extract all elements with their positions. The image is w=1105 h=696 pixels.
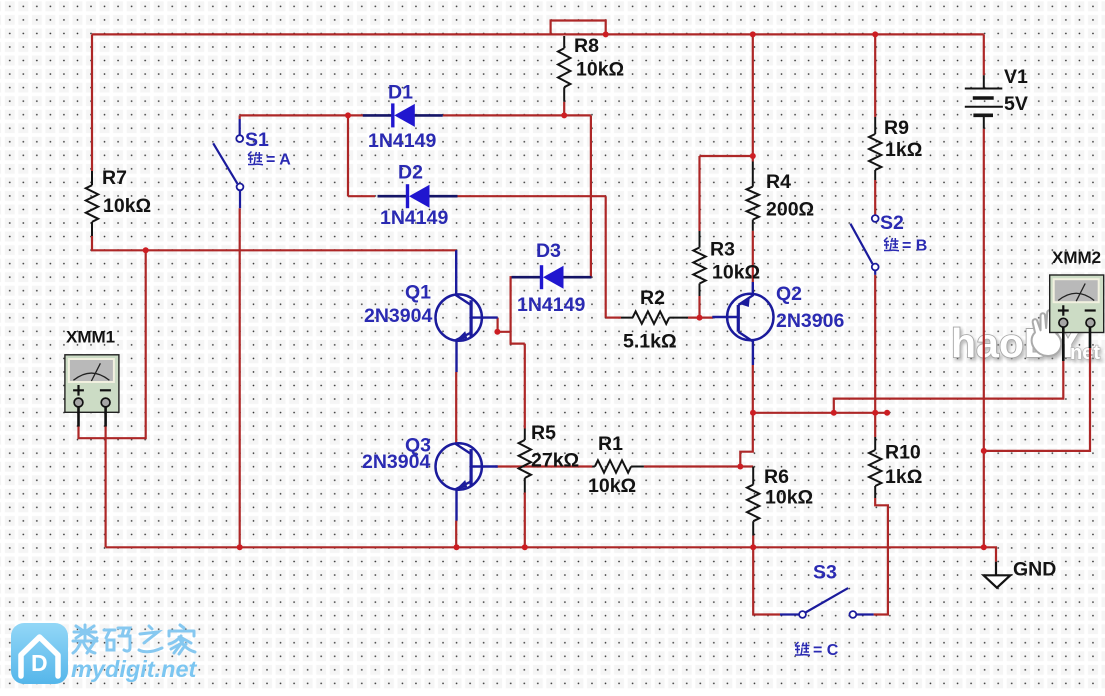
wire XMM2 plus lead xyxy=(834,360,1064,413)
resistor R7 xyxy=(86,171,98,236)
wire R5 bottom to ground bus xyxy=(524,493,526,548)
junction base row / Q2 collector xyxy=(737,464,743,470)
svg-text:27kΩ: 27kΩ xyxy=(531,450,579,472)
transistor Q3 2N3904 xyxy=(436,443,498,521)
svg-text:D1: D1 xyxy=(388,82,413,104)
wire D2 row drop to R2 xyxy=(605,196,607,317)
wire Q1 base net down to R5 xyxy=(524,344,526,429)
switch S3 xyxy=(780,588,874,618)
wire R2 right lead to Q2 base xyxy=(688,317,713,319)
wire R3 vertical feed xyxy=(698,156,700,231)
junction ground bus / V1 / GND xyxy=(981,544,987,550)
junction D1 row / D2 branch xyxy=(345,112,351,118)
wire D2 cathode to right corner xyxy=(455,195,606,197)
svg-text:XMM2: XMM2 xyxy=(1052,248,1101,267)
svg-text:10kΩ: 10kΩ xyxy=(576,59,624,81)
svg-text:R2: R2 xyxy=(640,287,665,309)
junction ground bus / R5 xyxy=(522,544,528,550)
wire R3 bottom to base node xyxy=(698,296,700,318)
wire D3 cathode corner to Q1 base junction xyxy=(511,277,525,343)
wire Q1 emitter to Q3 collector xyxy=(455,372,457,444)
wire ground bus stub to GND symbol xyxy=(984,547,996,561)
value S2 key B xyxy=(884,238,899,252)
transistor Q2 2N3906 xyxy=(712,282,773,365)
wire R4 bottom to Q2 emitter xyxy=(752,231,754,282)
junction collector net / S2-R10 xyxy=(872,410,878,416)
wire S3 right up to R10 xyxy=(874,498,888,615)
svg-text:D: D xyxy=(31,650,48,676)
svg-text:Q2: Q2 xyxy=(776,283,802,305)
resistor R5 xyxy=(519,429,531,493)
svg-text:10kΩ: 10kΩ xyxy=(765,487,813,509)
svg-text:D2: D2 xyxy=(398,162,423,184)
ground GND xyxy=(995,562,997,576)
svg-text:10kΩ: 10kΩ xyxy=(588,475,636,497)
svg-text:S2: S2 xyxy=(880,212,904,234)
diode D1 1N4149 xyxy=(363,103,443,127)
multimeter XMM1 xyxy=(65,355,119,413)
wire Q1 base drop xyxy=(498,318,511,332)
resistor R10 xyxy=(869,437,881,498)
junction top bus / jog xyxy=(603,31,609,37)
junction V1 line / XMM2 minus xyxy=(981,448,987,454)
junction collector net end xyxy=(884,410,890,416)
wire R2 left lead feed xyxy=(606,317,621,319)
wire V+ rail left drop to R7 xyxy=(91,34,93,171)
resistor R6 xyxy=(747,467,759,536)
wire V+ rail drop to R9 xyxy=(874,34,876,117)
resistor R2 xyxy=(621,311,688,323)
svg-text:1N4149: 1N4149 xyxy=(368,130,436,152)
multimeter XMM2 xyxy=(1050,275,1104,333)
junction ground bus / S1 xyxy=(237,544,243,550)
svg-text:R4: R4 xyxy=(766,171,791,193)
svg-text:R7: R7 xyxy=(102,167,127,189)
wire XMM2 minus lead xyxy=(984,348,1090,451)
wire bottom ground bus xyxy=(106,546,984,548)
wire R6 bottom to ground bus xyxy=(752,536,754,548)
wire V+ rail corner to V1 xyxy=(983,34,985,75)
wire top power bus xyxy=(92,33,984,35)
wire D1 cathode to R8 node xyxy=(443,114,591,116)
svg-text:net: net xyxy=(1070,342,1100,364)
svg-text:200Ω: 200Ω xyxy=(766,199,814,221)
mydigit.net logo icon xyxy=(11,623,68,684)
switch S2 xyxy=(850,215,878,275)
svg-text:= B: = B xyxy=(902,238,927,255)
resistor R9 xyxy=(869,117,881,180)
junction Q1 base / D3 xyxy=(494,329,500,335)
resistor R4 xyxy=(747,162,759,231)
wire Q3 emitter to ground bus xyxy=(455,521,457,548)
svg-text:2N3904: 2N3904 xyxy=(364,305,432,327)
junction top bus / R9 branch xyxy=(872,31,878,37)
junction collector net / Q2 xyxy=(750,410,756,416)
svg-text:S3: S3 xyxy=(813,562,837,584)
svg-text:10kΩ: 10kΩ xyxy=(103,195,151,217)
svg-text:R10: R10 xyxy=(885,442,921,464)
svg-text:XMM1: XMM1 xyxy=(66,328,115,347)
XMM2 terminal leads xyxy=(1063,327,1090,361)
svg-text:D3: D3 xyxy=(536,240,561,262)
wire R3 top to R4 node xyxy=(700,155,753,157)
junction collector node / XMM1 xyxy=(143,247,149,253)
svg-text:V1: V1 xyxy=(1004,66,1028,88)
svg-text:R1: R1 xyxy=(598,433,623,455)
watermark haoDY.net xyxy=(951,310,1100,367)
wire ground bus to S3 left xyxy=(753,547,780,614)
svg-text:R6: R6 xyxy=(764,466,789,488)
svg-text:5V: 5V xyxy=(1004,93,1028,115)
junction collector net / XMM2 plus xyxy=(831,410,837,416)
wire Q2 collector net horizontal xyxy=(753,412,887,414)
wire Q3 base row to R1 xyxy=(495,465,592,467)
junction R2 / R3 / Q2 base xyxy=(697,315,703,321)
wire S2 bottom to collector net xyxy=(874,275,876,413)
wire D1 anode row xyxy=(240,114,363,116)
resistor R3 xyxy=(693,231,705,296)
svg-text:10kΩ: 10kΩ xyxy=(712,262,760,284)
svg-text:= A: = A xyxy=(266,152,291,169)
value S1 key A xyxy=(248,152,263,166)
resistor R8 xyxy=(558,36,570,102)
wire Q2 collector down xyxy=(740,365,753,467)
junction top bus / R4 branch xyxy=(750,31,756,37)
svg-text:1N4149: 1N4149 xyxy=(380,207,448,229)
svg-text:S1: S1 xyxy=(245,129,269,151)
wire S1 bottom down to ground bus xyxy=(239,208,241,547)
junction ground bus / Q3 emitter xyxy=(454,544,460,550)
diode D2 1N4149 xyxy=(378,184,458,208)
wire V1 minus down to ground xyxy=(983,129,985,548)
XMM1 terminal leads xyxy=(79,407,106,427)
wire D1 row corner down to D3 xyxy=(590,115,592,277)
wire XMM1 minus down to ground bus xyxy=(104,426,106,547)
wire R1 to R6 node xyxy=(644,465,753,467)
battery V1 5V xyxy=(965,75,1003,129)
svg-text:R8: R8 xyxy=(574,35,599,57)
resistor R1 xyxy=(592,460,644,472)
junction R4 top / R3 top xyxy=(750,153,756,159)
junction ground bus / R6-S3 xyxy=(750,544,756,550)
wire R9 bottom to S2 xyxy=(874,180,876,215)
svg-text:R9: R9 xyxy=(884,117,909,139)
wire D1 junction drop to D2 row xyxy=(347,115,349,196)
wire R10 top feed xyxy=(874,413,876,437)
switch S1 xyxy=(213,119,243,208)
transistor Q1 2N3904 xyxy=(436,250,498,372)
value S3 key C xyxy=(795,642,810,656)
wire V+ rail drop to R4 xyxy=(752,34,754,161)
wire XMM1 plus to collector node xyxy=(79,250,146,438)
wire R8 bottom stub xyxy=(563,102,565,116)
svg-text:1kΩ: 1kΩ xyxy=(885,466,922,488)
svg-text:GND: GND xyxy=(1013,559,1056,581)
svg-text:R5: R5 xyxy=(531,422,556,444)
wire S1 top feed from D1 row xyxy=(239,115,241,119)
wire R7 bottom to Q1 collector node xyxy=(92,236,456,250)
svg-text:Q1: Q1 xyxy=(405,282,431,304)
svg-text:2N3906: 2N3906 xyxy=(776,310,844,332)
svg-text:= C: = C xyxy=(813,642,839,659)
junction D1 row / R8 bottom xyxy=(561,112,567,118)
svg-text:1kΩ: 1kΩ xyxy=(885,139,922,161)
wire D2 anode row xyxy=(348,195,375,197)
svg-text:2N3904: 2N3904 xyxy=(362,451,430,473)
svg-text:R3: R3 xyxy=(710,239,735,261)
svg-text:mydigit.net: mydigit.net xyxy=(71,656,198,682)
diode D3 1N4149 xyxy=(512,265,592,289)
logo text 数码之家 xyxy=(73,625,195,654)
wire top bus hop-over jog xyxy=(551,21,606,35)
svg-text:5.1kΩ: 5.1kΩ xyxy=(623,331,677,353)
svg-text:1N4149: 1N4149 xyxy=(517,294,585,316)
